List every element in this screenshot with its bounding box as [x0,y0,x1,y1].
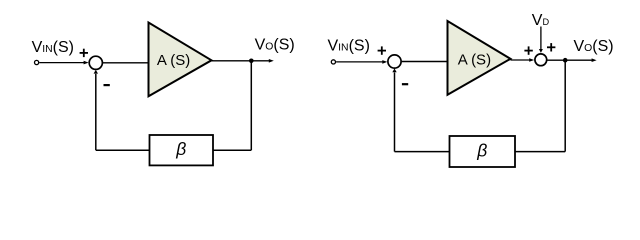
wire: feedback vertical from output junction (left) [250,61,252,150]
wire: amplifier output (left) [212,59,274,63]
junction dot at output node (left) [249,59,254,64]
wire: output summing junction to output (right) [547,58,596,62]
svg-text:VIN(S): VIN(S) [32,39,74,56]
wire: feedback bottom right segment (left) [213,149,251,151]
wire: feedback bottom left segment (right) [395,151,450,153]
svg-text:A (S): A (S) [458,51,491,68]
input terminal (left diagram) [35,60,39,64]
svg-text:β: β [175,139,186,159]
minus sign at summing junction feedback (left) [104,84,110,86]
feedback block β (right) [450,136,516,167]
wire: feedback up into summing junction (right) [392,69,396,152]
svg-text:β: β [476,141,487,161]
wire: feedback vertical from output junction (right) [564,60,566,151]
wire: input to summing junction (left) [39,61,88,65]
svg-text:VO(S): VO(S) [574,38,614,55]
svg-text:VIN(S): VIN(S) [328,37,370,54]
wire: feedback bottom left segment (left) [96,149,150,151]
minus sign at summing junction feedback (right) [402,83,408,85]
plus sign at output summing junction VD input (right) [547,43,555,51]
wire: feedback up into summing junction (left) [94,70,98,150]
output summing junction S3 (right) [535,54,547,66]
wire: VD into output summing junction (right) [539,27,543,53]
wire: input to summing junction (right) [336,60,387,64]
wire: summing junction to amplifier (right) [402,61,448,63]
wire: amplifier to output summing junction (right) [511,58,535,62]
input terminal (right diagram) [331,60,335,64]
plus sign at output summing junction left input (right) [524,46,532,54]
op-amp A(S) (left) [149,23,212,97]
svg-text:VO(S): VO(S) [255,37,295,54]
junction dot at output node (right) [563,58,568,63]
svg-text:A (S): A (S) [157,52,190,69]
summing junction S2 (right) [388,55,401,68]
op-amp A(S) (right) [448,21,511,95]
plus sign at summing junction input (left) [80,49,88,57]
plus sign at summing junction input (right) [378,46,386,54]
feedback block β (left) [150,135,214,165]
wire: summing junction to amplifier (left) [103,62,149,64]
summing junction S1 (left) [89,56,102,69]
wire: feedback bottom right segment (right) [515,151,565,153]
